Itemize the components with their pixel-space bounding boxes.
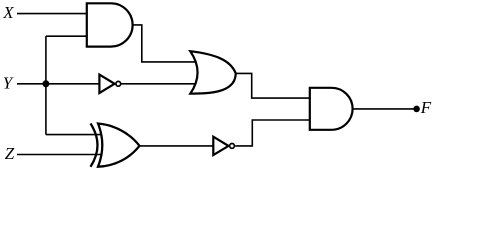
svg-text:Y: Y [3,74,14,93]
svg-text:X: X [2,3,14,22]
svg-text:Z: Z [5,144,15,163]
svg-text:F: F [420,98,432,117]
